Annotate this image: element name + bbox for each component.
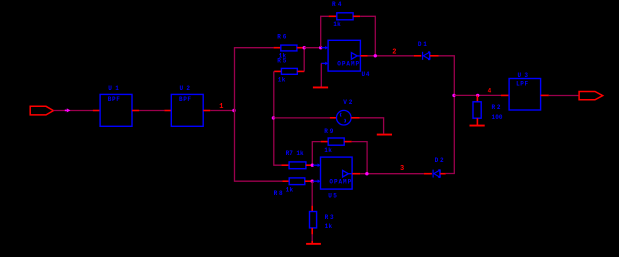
svg-text:1: 1 [219,103,223,111]
resistor R2 [476,95,478,101]
svg-text:OPAMP: OPAMP [329,179,351,186]
svg-text:V2: V2 [343,99,352,106]
U2 BPF box [171,94,203,126]
svg-text:100: 100 [492,114,503,121]
U1 pin left [93,110,100,112]
node 1 junction [232,109,235,112]
svg-text:3: 3 [400,165,404,173]
svg-text:2: 2 [392,48,396,56]
ground under U4 [313,87,328,89]
svg-text:R8: R8 [274,190,283,197]
junction V2 line [272,116,275,119]
wire U4 output to D1 [368,55,414,57]
junction R8/R3/pin2 [311,180,314,183]
junction R4/pin1 [319,46,322,49]
junction R6/R5 [303,46,306,49]
svg-text:R3: R3 [325,214,334,221]
node 4 junction [452,94,455,97]
svg-text:R7 1k: R7 1k [286,150,304,157]
wire U4 pin2 to ground [320,63,322,86]
resistor R6 [274,47,281,49]
wire U5 output to D2 [360,173,424,175]
wire R4 left down to input node [321,16,329,47]
U3 LPF box [509,79,540,111]
U2 pin left [164,110,171,112]
wire port to U1 [53,110,93,112]
svg-text:1k: 1k [286,187,294,194]
U5 output pin [352,173,360,175]
svg-text:BPF: BPF [179,96,191,103]
svg-text:R6: R6 [277,34,286,41]
svg-text:4: 4 [488,88,492,95]
wire R4 right down to output node [360,16,375,56]
ground under R3 [306,243,321,245]
wire V2 right to ground [360,118,384,134]
op-amp U4 [328,40,360,71]
svg-text:U 1: U 1 [108,85,119,92]
resistor R3 [311,181,313,206]
wire U3 to output port [549,95,579,97]
resistor R7 [281,164,289,166]
junction R7/R9/pin1 [311,164,314,167]
wire node1 vertical bus [235,48,283,182]
svg-text:U 2: U 2 [180,85,191,92]
node 3 junction [365,172,368,175]
wire R6 node to op-amp input [304,47,321,49]
svg-text:R9: R9 [324,128,333,135]
wire node4 to U3 [454,94,501,96]
wire R5 right up to R6 node [303,48,305,72]
svg-text:U 3: U 3 [518,72,529,79]
U3 pin left [501,94,509,96]
wire R9 right down to output node [352,142,367,174]
output port P2 [579,92,603,100]
wire V2 junction line [273,117,329,119]
no-ERC arrow marker [67,108,71,112]
wire R5 left vertical to V2 and R7 [274,71,282,165]
op-amp U5 [321,157,353,189]
resistor R5 [274,70,281,72]
U1 pin right [132,110,139,112]
svg-text:U4: U4 [362,71,370,78]
svg-text:1k: 1k [333,21,341,28]
svg-text:R2: R2 [492,104,501,111]
svg-text:D1: D1 [418,41,427,48]
ground right of V2 [377,134,392,136]
ground under R2 [470,125,485,127]
svg-text:1k: 1k [324,147,332,154]
diode D2 [424,173,432,175]
resistor R9 [321,141,329,143]
svg-text:1k: 1k [325,223,333,230]
U2 pin right [203,110,210,112]
resistor R4 [329,15,337,17]
node 2 junction [374,54,377,57]
U4 output pin [360,55,367,57]
svg-text:LPF: LPF [516,81,528,88]
source V2 [330,117,337,119]
wire R9 left down to pin1 node [312,142,320,166]
U1 BPF box [100,94,132,126]
diode D1 [414,55,422,57]
svg-text:OPAMP: OPAMP [337,60,359,67]
input port P1 [30,106,53,115]
resistor R8 [282,180,289,182]
junction R2 [476,94,479,97]
svg-text:R5: R5 [277,57,286,64]
wire U1 to U2 [139,110,164,112]
wire D1 to node 4 down to D2 [439,56,455,174]
wire U2 to node 1 [210,110,234,112]
svg-text:BPF: BPF [108,96,120,103]
U3 pin right [541,94,549,96]
svg-text:D2: D2 [435,157,444,164]
svg-text:U5: U5 [328,193,337,200]
svg-text:R4: R4 [332,1,342,8]
svg-text:1k: 1k [278,77,286,84]
